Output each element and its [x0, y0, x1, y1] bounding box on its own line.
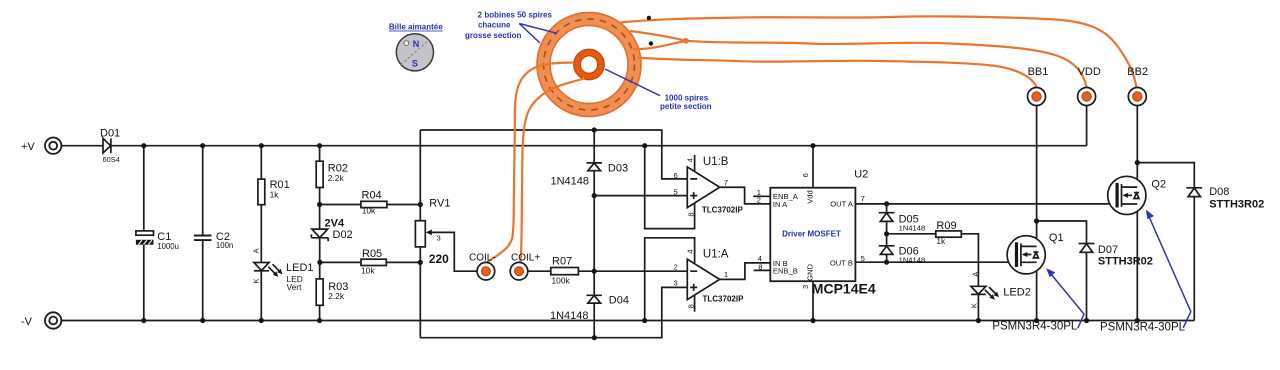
svg-text:K: K: [252, 278, 261, 283]
svg-text:1N4148: 1N4148: [899, 223, 926, 232]
svg-text:Driver MOSFET: Driver MOSFET: [782, 230, 841, 239]
svg-text:RV1: RV1: [429, 197, 450, 209]
svg-text:8: 8: [686, 304, 695, 308]
svg-text:petite section: petite section: [660, 102, 712, 111]
svg-text:Vdd: Vdd: [805, 190, 814, 204]
svg-text:U2: U2: [854, 169, 868, 181]
svg-text:STTH3R02: STTH3R02: [1098, 255, 1153, 267]
svg-text:chacune: chacune: [478, 21, 511, 30]
svg-text:2V4: 2V4: [325, 218, 345, 230]
svg-text:1: 1: [724, 270, 728, 279]
svg-text:COIL+: COIL+: [511, 253, 540, 264]
svg-text:U1:B: U1:B: [703, 156, 729, 168]
svg-text:Vert: Vert: [287, 282, 303, 292]
svg-text:3: 3: [674, 279, 678, 288]
svg-text:BB2: BB2: [1127, 66, 1148, 78]
svg-text:+V: +V: [21, 141, 35, 153]
svg-text:Q2: Q2: [1151, 179, 1166, 191]
svg-text:D04: D04: [609, 294, 629, 306]
svg-text:220: 220: [429, 252, 449, 266]
svg-text:3: 3: [801, 285, 810, 289]
svg-text:grosse section: grosse section: [465, 31, 522, 40]
svg-text:60S4: 60S4: [103, 155, 120, 164]
svg-text:8: 8: [758, 263, 762, 272]
svg-text:2: 2: [757, 196, 761, 205]
svg-text:2: 2: [674, 262, 678, 271]
svg-text:4: 4: [685, 158, 694, 162]
svg-text:LED1: LED1: [286, 262, 314, 274]
svg-text:D07: D07: [1098, 244, 1118, 256]
svg-text:S: S: [412, 59, 418, 69]
svg-text:6: 6: [674, 171, 678, 180]
svg-text:1N4148: 1N4148: [899, 256, 926, 265]
svg-text:R05: R05: [362, 248, 382, 260]
svg-text:3: 3: [437, 234, 441, 243]
svg-text:7: 7: [724, 178, 728, 187]
svg-text:7: 7: [861, 194, 865, 203]
svg-text:GND: GND: [805, 263, 814, 280]
svg-text:TLC3702IP: TLC3702IP: [703, 295, 745, 304]
svg-text:OUT A: OUT A: [830, 199, 854, 208]
svg-text:8: 8: [686, 212, 695, 216]
svg-text:1000u: 1000u: [157, 242, 179, 251]
svg-text:1k: 1k: [936, 236, 946, 246]
svg-text:2.2k: 2.2k: [328, 173, 345, 183]
svg-text:D02: D02: [333, 229, 353, 241]
svg-text:6: 6: [801, 173, 810, 177]
svg-text:D01: D01: [100, 128, 120, 140]
svg-text:5: 5: [861, 254, 865, 263]
svg-text:PSMN3R4-30PL: PSMN3R4-30PL: [992, 321, 1078, 333]
svg-text:100k: 100k: [552, 275, 571, 285]
svg-text:BB1: BB1: [1028, 66, 1049, 78]
svg-text:COIL-: COIL-: [469, 253, 496, 264]
svg-text:1N4148: 1N4148: [551, 176, 590, 188]
svg-text:5: 5: [674, 188, 678, 197]
svg-text:D03: D03: [608, 162, 628, 174]
svg-text:IN A: IN A: [773, 200, 788, 209]
svg-text:VDD: VDD: [1078, 66, 1101, 78]
svg-text:Q1: Q1: [1049, 232, 1064, 244]
svg-text:MCP14E4: MCP14E4: [812, 280, 876, 296]
svg-text:LED2: LED2: [1003, 287, 1031, 299]
svg-text:10k: 10k: [361, 266, 375, 276]
svg-text:10k: 10k: [362, 205, 376, 215]
svg-text:PSMN3R4-30PL: PSMN3R4-30PL: [1100, 322, 1186, 334]
svg-text:R09: R09: [936, 220, 956, 232]
svg-text:STTH3R02: STTH3R02: [1209, 198, 1264, 210]
svg-text:1N4148: 1N4148: [550, 310, 589, 322]
svg-text:ENB_B: ENB_B: [773, 267, 798, 276]
svg-text:2 bobines 50 spires: 2 bobines 50 spires: [478, 11, 553, 20]
svg-text:2.2k: 2.2k: [328, 291, 345, 301]
svg-text:4: 4: [685, 249, 694, 253]
svg-text:R07: R07: [552, 255, 572, 267]
svg-text:R04: R04: [362, 189, 382, 201]
svg-text:100n: 100n: [216, 241, 233, 250]
svg-text:TLC3702IP: TLC3702IP: [702, 205, 744, 214]
svg-text:D08: D08: [1209, 186, 1229, 198]
svg-text:K: K: [969, 303, 978, 308]
svg-text:N: N: [413, 39, 420, 49]
svg-text:-V: -V: [21, 316, 33, 328]
svg-text:Bille aimantée: Bille aimantée: [389, 23, 443, 32]
svg-text:OUT B: OUT B: [830, 259, 853, 268]
svg-text:U1:A: U1:A: [703, 248, 729, 260]
svg-text:1k: 1k: [270, 189, 280, 199]
